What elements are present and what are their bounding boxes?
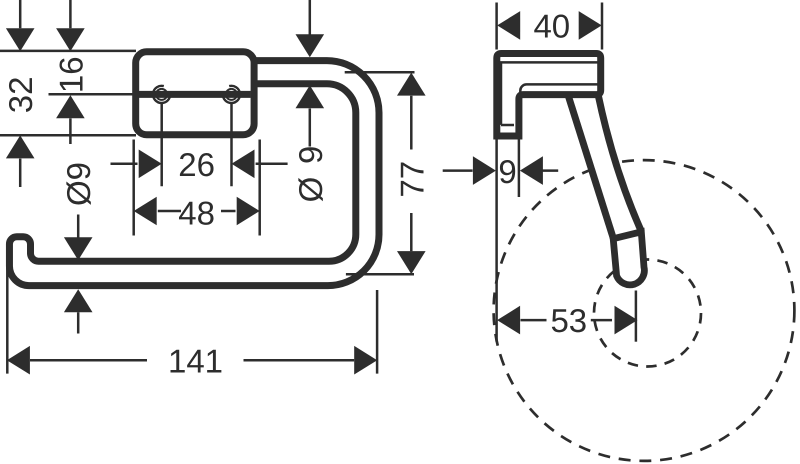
53 right arrow (right-pointing) (615, 306, 638, 335)
141 left arrow (7, 346, 30, 375)
9 right arrow (left-pointing) (520, 156, 543, 185)
53 left arrow (left-pointing) (497, 306, 520, 335)
svg-text:48: 48 (178, 195, 215, 232)
Ø9 left up arrow (64, 289, 93, 312)
right view thin dim lines (443, 3, 636, 342)
svg-text:9: 9 (292, 146, 329, 164)
bracket thin inner lines (498, 62, 601, 125)
16 bottom arrow (up) (56, 95, 85, 118)
arm right edge (598, 96, 641, 232)
svg-text:53: 53 (550, 302, 587, 339)
Ø9 top down arrow (296, 34, 325, 57)
dim 77 ext bottom (346, 273, 414, 276)
svg-text:40: 40 (533, 8, 570, 45)
48 left arrow (left-pointing) (134, 197, 157, 226)
Ø9 top up arrow (296, 85, 325, 108)
svg-text:26: 26 (178, 146, 215, 183)
40 left arrow (left-pointing) (497, 11, 520, 40)
32 top arrow (down) (6, 28, 35, 51)
arm tip capsule (613, 232, 644, 285)
big dashed circle (toilet roll) (494, 160, 795, 461)
plate ext lines (134, 140, 260, 236)
77 bottom arrow (down) (397, 251, 426, 274)
77 top arrow (up) (397, 73, 426, 96)
hole ext lines (162, 103, 232, 186)
ext 16 y=94.3 (49, 93, 137, 96)
wall ext line (495, 138, 498, 342)
screw hole left (156, 89, 167, 100)
141 right arrow (354, 346, 377, 375)
Ø9 left down arrow (64, 237, 93, 260)
dim 40 ext lines (497, 3, 602, 50)
dim 77 ext top (345, 71, 415, 74)
26 left arrow (right-pointing) (139, 150, 162, 179)
roll-holder tube outline (9, 61, 379, 286)
plate mid bar (139, 91, 251, 98)
arrows left view (6, 28, 426, 374)
svg-text:77: 77 (393, 161, 430, 198)
svg-text:16: 16 (52, 56, 89, 93)
dim 26 line (111, 163, 288, 166)
svg-text:141: 141 (168, 342, 223, 379)
dim 48 line (158, 210, 236, 213)
arm bar white fill (568, 96, 641, 239)
16 top arrow (down) (56, 28, 85, 51)
dim 141 line (30, 359, 354, 362)
wall bracket outline (497, 54, 601, 137)
dim 53 line (521, 319, 613, 322)
32 bottom arrow (up) (6, 135, 35, 158)
48 right arrow (right-pointing) (237, 197, 260, 226)
ext top y=50.9 (0, 50, 136, 53)
inner ext line (518, 138, 521, 198)
dim 141 ext lines (7, 267, 377, 374)
9 left arrow (right-pointing) (473, 156, 496, 185)
arrows right view (473, 11, 638, 334)
dim 77 vertical (410, 96, 413, 252)
small dashed circle (roll core) (594, 260, 701, 367)
wall plate (front) (136, 52, 254, 135)
screw hole right (226, 89, 237, 100)
arm left edge (568, 96, 613, 239)
dim 16 vertical (69, 0, 72, 144)
dim 32 vertical (19, 0, 22, 187)
svg-text:9: 9 (498, 153, 516, 190)
26 right arrow (left-pointing) (232, 150, 255, 179)
dim 9 line tails (443, 169, 559, 172)
svg-text:32: 32 (2, 77, 39, 114)
dim Ø9 left vertical (77, 215, 80, 334)
thin extension lines (0, 0, 415, 374)
dim Ø9 top vertical (309, 0, 312, 147)
tip ext line (635, 291, 638, 342)
svg-text:Ø9: Ø9 (60, 162, 97, 206)
svg-text:Ø: Ø (292, 177, 329, 203)
40 right arrow (right-pointing) (579, 11, 602, 40)
ext 32 y=135.2 (0, 134, 136, 137)
